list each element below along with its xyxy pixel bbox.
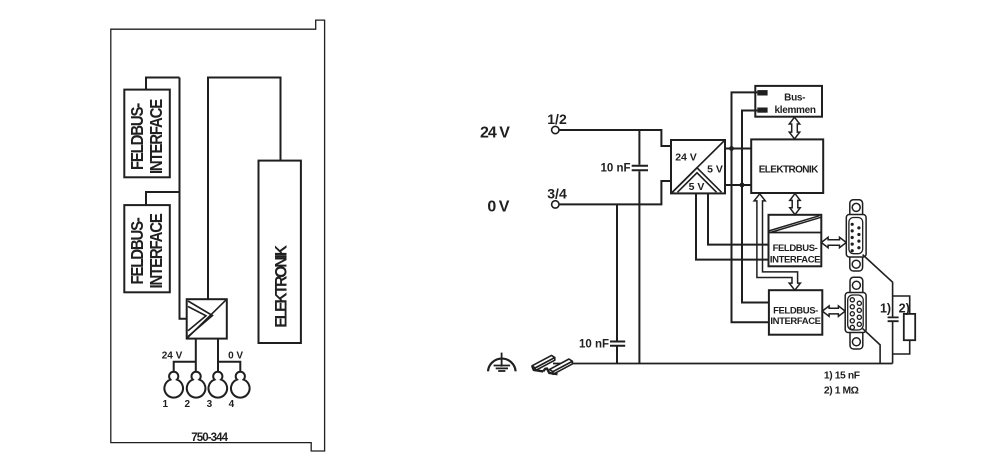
wire: 0V bracket terminal 4 xyxy=(218,362,240,372)
shield bus line xyxy=(553,363,893,365)
terminal node 1/2 xyxy=(552,126,559,133)
L-shaped arrow ELEKTRONIK / FELDBUS-INTERFACE 2 xyxy=(754,194,800,290)
svg-text:1) 15 nF: 1) 15 nF xyxy=(824,371,860,382)
wire: vertical bus to DC/DC left input xyxy=(180,78,187,319)
svg-text:INTERFACE: INTERFACE xyxy=(770,254,820,265)
elektronik box (right diagram) xyxy=(751,139,823,193)
double arrow FELDBUS-INTERFACE 2 / D-sub 2 xyxy=(822,306,845,316)
wire: DC/DC bottom stub to terminal 2 xyxy=(195,339,197,372)
wire: FELDBUS-INTERFACE 2 riser to vertical bus xyxy=(146,192,180,205)
terminal 1 keyhole xyxy=(164,372,183,398)
svg-text:ELEKTRONIK: ELEKTRONIK xyxy=(272,245,291,328)
wire: DC/DC 5V output to ELEKTRONIK (lower) xyxy=(725,184,751,186)
junction dot upper 5V xyxy=(729,146,734,151)
svg-text:FELDBUS-: FELDBUS- xyxy=(773,305,818,316)
capacitor 10nF upper (24V to shield) xyxy=(600,130,648,364)
wire: 24V bracket terminal 1 xyxy=(174,362,196,372)
double arrow Bus-klemmen / ELEKTRONIK xyxy=(789,117,799,139)
svg-text:Bus-: Bus- xyxy=(784,92,805,103)
svg-text:4: 4 xyxy=(229,399,235,410)
wire: D-sub 2 shield to bus xyxy=(863,329,881,364)
svg-text:FELDBUS-: FELDBUS- xyxy=(773,243,818,254)
wire: DC/DC bottom output to FELDBUS-INTERFACE 1 (lower) xyxy=(696,193,769,259)
wire: 24V rail to DC/DC input xyxy=(559,130,671,146)
capacitor 10nF lower (0V to shield) xyxy=(579,204,625,363)
svg-text:5 V: 5 V xyxy=(689,181,705,193)
wire: 5V down to FELDBUS-INTERFACE 2 (lower input) xyxy=(732,149,769,323)
svg-text:24 V: 24 V xyxy=(480,125,510,142)
svg-text:2) 1 MΩ: 2) 1 MΩ xyxy=(824,386,859,397)
wire: D-sub 1 shield to RC network xyxy=(863,255,893,364)
D-sub connector 2 (male, open pins) xyxy=(845,277,866,349)
terminal 4 keyhole xyxy=(231,372,250,398)
wire: 5V down to FELDBUS-INTERFACE 2 (upper input) xyxy=(742,185,769,303)
dc/dc converter 24V/5V (right diagram) xyxy=(671,140,725,193)
feldbus-interface box 2 (left diagram) xyxy=(124,205,170,292)
wire: 5V to Bus-klemmen terminal 2 xyxy=(742,111,757,186)
svg-text:750-344: 750-344 xyxy=(191,432,228,444)
capacitor 1) 15nF xyxy=(880,302,899,322)
svg-text:3/4: 3/4 xyxy=(547,185,567,201)
svg-text:1): 1) xyxy=(880,302,891,316)
elektronik box (left diagram) xyxy=(259,161,301,343)
svg-text:ELEKTRONIK: ELEKTRONIK xyxy=(759,165,819,176)
svg-text:24 V: 24 V xyxy=(162,351,183,362)
ground symbol xyxy=(488,353,516,372)
svg-text:10 nF: 10 nF xyxy=(600,163,630,175)
bus-klemmen box xyxy=(755,86,822,117)
junction dot lower 5V xyxy=(740,183,745,188)
resistor 2) 1 MOhm xyxy=(893,296,916,354)
svg-text:1/2: 1/2 xyxy=(547,111,567,127)
feldbus-interface box 1 (right diagram) with isolation strip xyxy=(769,215,822,266)
D-sub connector 1 (female, filled pins) xyxy=(846,200,866,271)
double arrow ELEKTRONIK / FELDBUS-INTERFACE 1 xyxy=(790,194,800,215)
svg-text:INTERFACE: INTERFACE xyxy=(770,316,820,327)
wire: ELEKTRONIK top loop to DC/DC top xyxy=(208,78,281,300)
feldbus-interface box 1 (left diagram) xyxy=(124,90,170,178)
svg-text:INTERFACE: INTERFACE xyxy=(146,213,167,288)
svg-text:5 V: 5 V xyxy=(707,164,723,176)
svg-text:INTERFACE: INTERFACE xyxy=(146,99,167,174)
dc/dc converter symbol (left diagram) xyxy=(187,299,227,338)
svg-text:FELDBUS-: FELDBUS- xyxy=(127,103,148,170)
wire: DC/DC 5V output to ELEKTRONIK (upper) xyxy=(725,148,751,150)
svg-text:24 V: 24 V xyxy=(675,152,697,164)
terminal 3 keyhole xyxy=(209,372,228,398)
wire: DC/DC bottom stub to terminal 3 xyxy=(217,339,219,372)
svg-text:FELDBUS-: FELDBUS- xyxy=(127,218,148,285)
svg-text:2): 2) xyxy=(899,302,910,316)
svg-text:1: 1 xyxy=(163,399,169,410)
wire: 0V rail to DC/DC input xyxy=(559,181,671,204)
svg-text:0 V: 0 V xyxy=(228,351,243,362)
feldbus-interface box 2 (right diagram) xyxy=(769,290,822,335)
double arrow FELDBUS-INTERFACE 1 / D-sub 1 xyxy=(821,237,846,247)
svg-text:10 nF: 10 nF xyxy=(579,339,609,351)
svg-text:3: 3 xyxy=(207,399,213,410)
wire: FELDBUS-INTERFACE 1 riser to vertical bus xyxy=(146,78,180,90)
wire: DC/DC bottom output to FELDBUS-INTERFACE 1 (upper) xyxy=(708,193,769,244)
wire: 5V to Bus-klemmen terminal 1 xyxy=(732,92,758,148)
terminal 2 keyhole xyxy=(187,372,206,398)
module outline 750-344 housing xyxy=(111,20,325,451)
svg-text:2: 2 xyxy=(185,399,191,410)
terminal node 3/4 xyxy=(552,201,559,208)
svg-text:0 V: 0 V xyxy=(487,199,509,216)
shield clamp symbol xyxy=(532,355,572,374)
svg-text:klemmen: klemmen xyxy=(774,105,815,116)
